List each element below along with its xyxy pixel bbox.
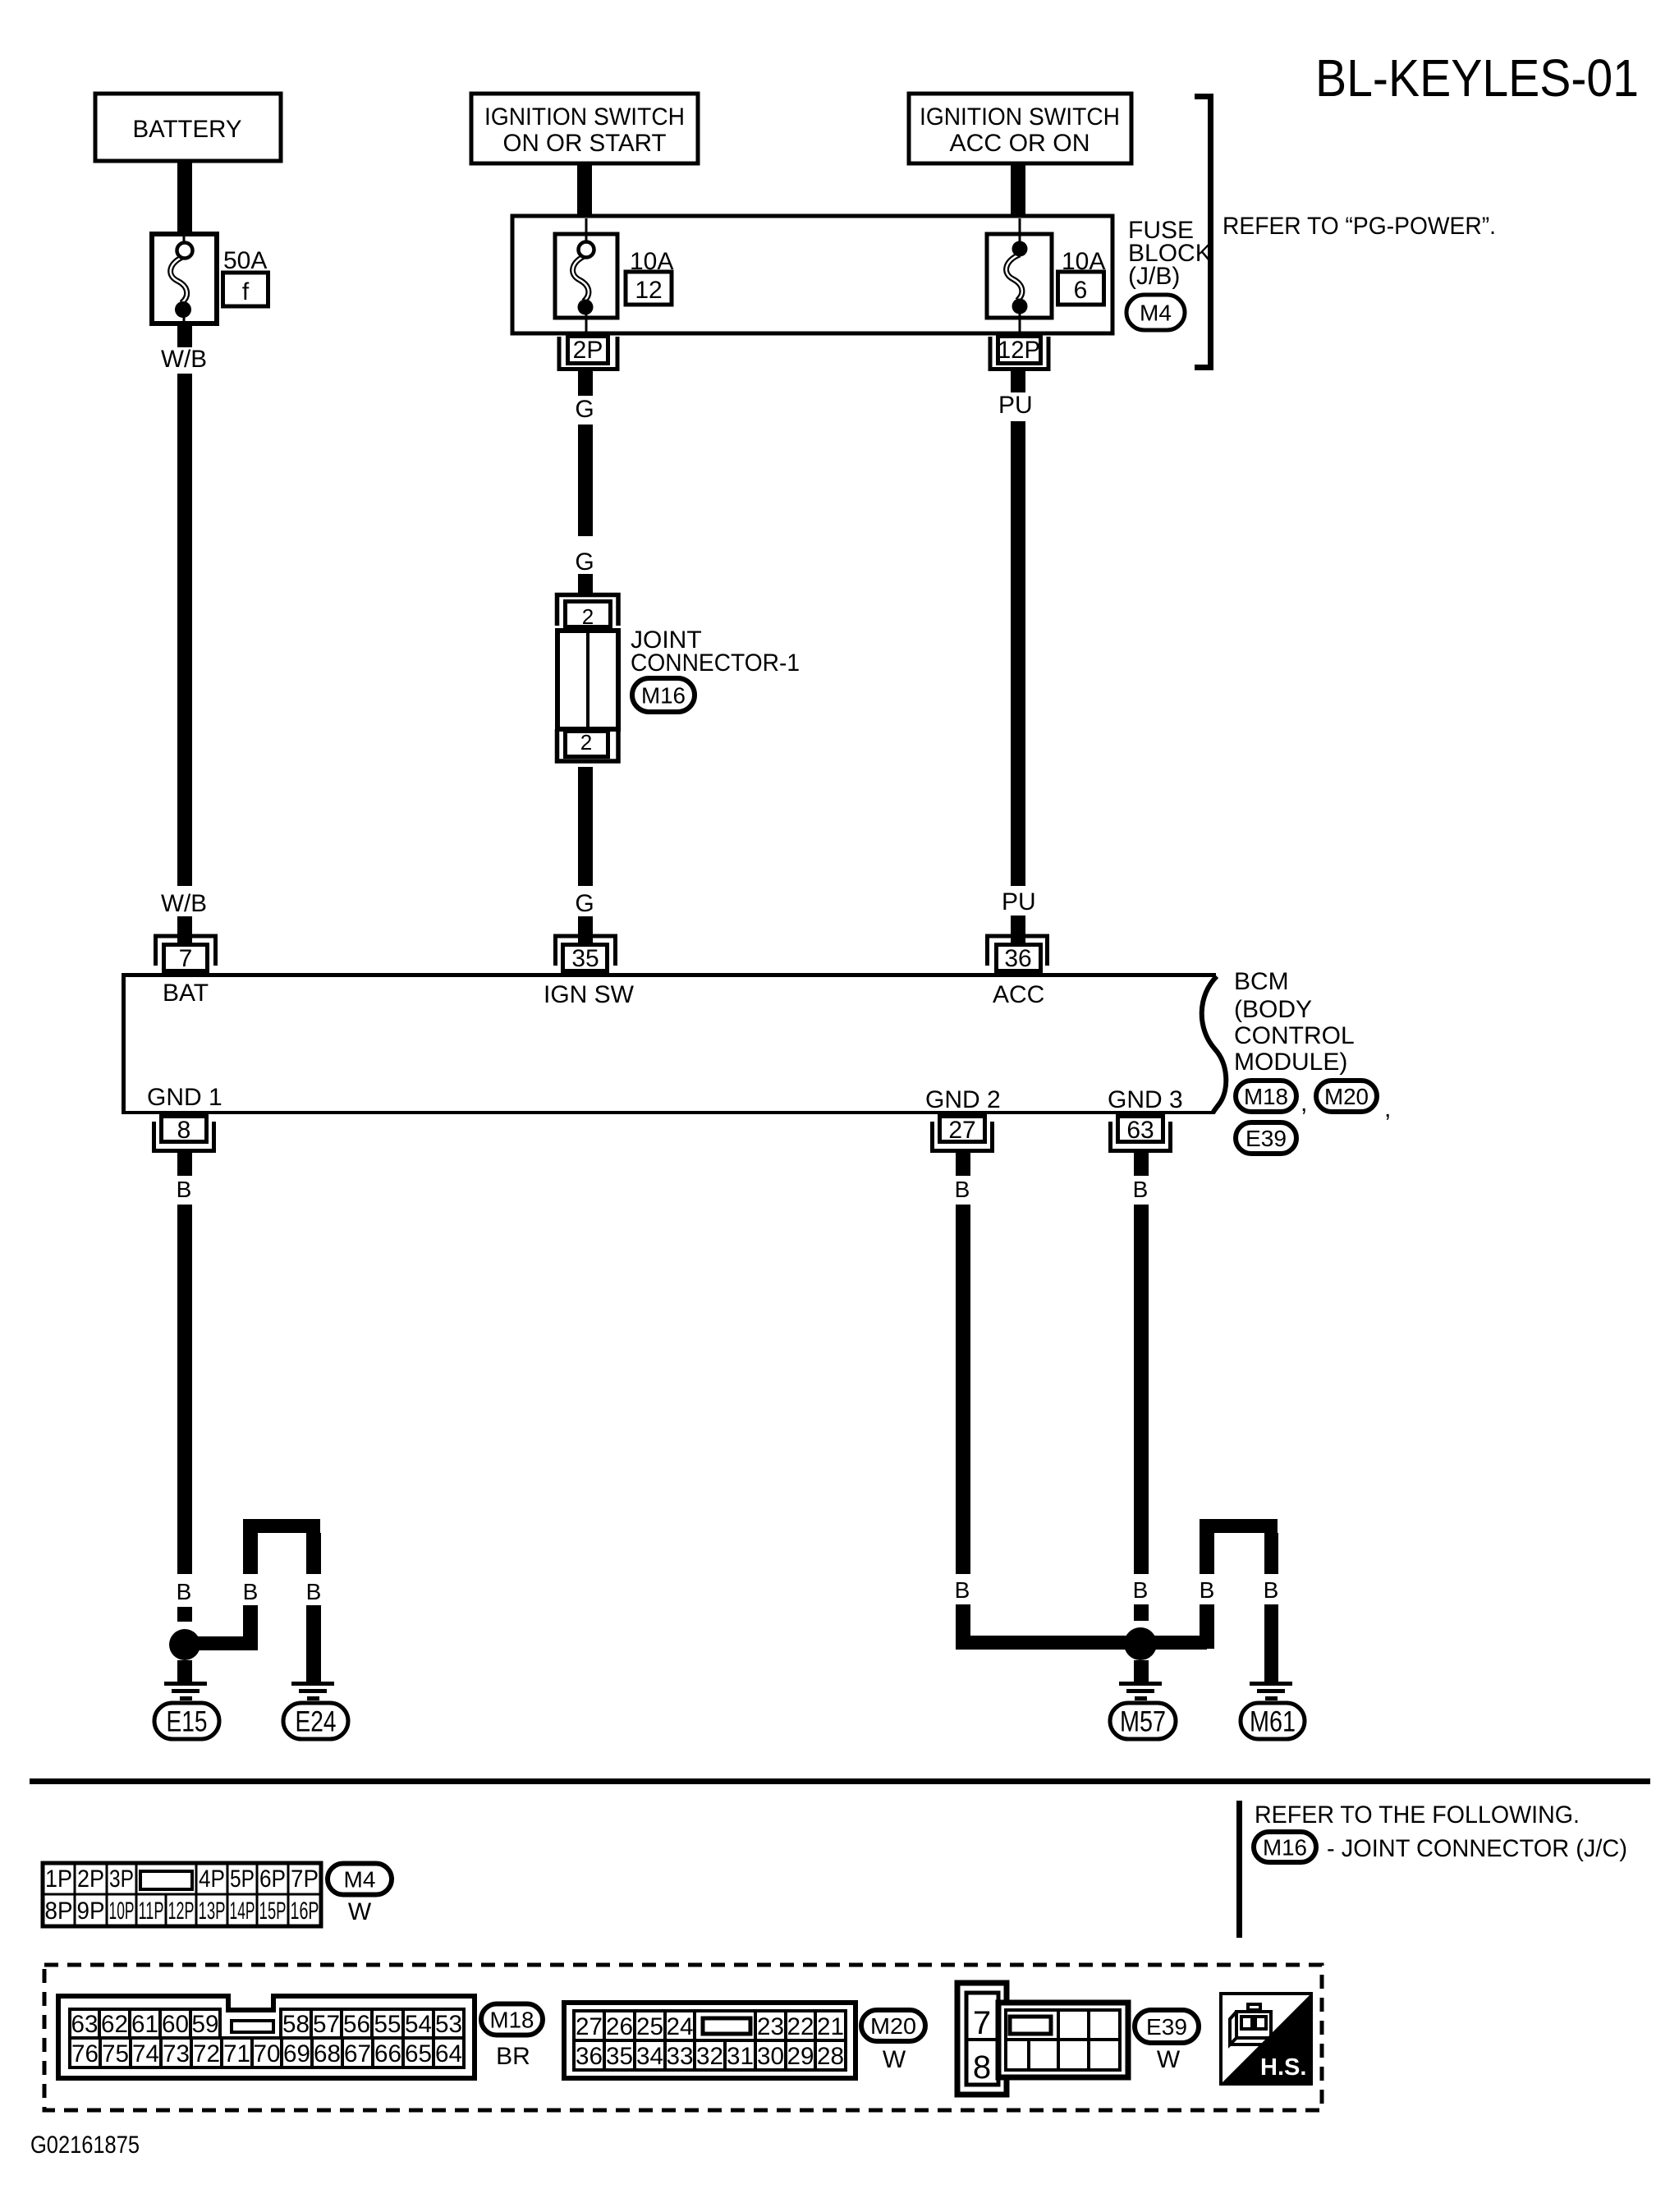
- pin 71 (M18): [222, 2038, 252, 2067]
- svg-text:63: 63: [1126, 1117, 1154, 1144]
- svg-text:58: 58: [282, 2011, 310, 2038]
- joint connector-1 bottom pin box 2: [566, 732, 608, 757]
- wire below junction dot to ground E15: [177, 1660, 192, 1682]
- svg-text:BL-KEYLES-01: BL-KEYLES-01: [1315, 48, 1639, 108]
- connector id oval M4 (table): [328, 1864, 392, 1895]
- ignition switch ACC/ON box: [909, 94, 1131, 163]
- fuse id box 12: [626, 272, 672, 305]
- svg-text:11P: 11P: [139, 1898, 164, 1925]
- svg-text:67: 67: [344, 2040, 371, 2067]
- ground id oval M61: [1241, 1703, 1305, 1739]
- wire n-left-leg lower segment: [243, 1605, 258, 1650]
- svg-text:B: B: [955, 1577, 970, 1603]
- svg-text:M4: M4: [1140, 300, 1172, 325]
- connector face M18 pin table: [58, 1996, 475, 2078]
- connector id oval E39 (BCM): [1236, 1122, 1296, 1154]
- svg-text:IGNITION SWITCH: IGNITION SWITCH: [920, 103, 1120, 131]
- svg-text:ACC OR ON: ACC OR ON: [950, 130, 1090, 157]
- H.S. hand-side badge: [1221, 1994, 1311, 2084]
- pin box 7: [164, 945, 208, 971]
- svg-text:5P: 5P: [230, 1866, 255, 1893]
- svg-text:BR: BR: [496, 2043, 530, 2070]
- svg-text:65: 65: [405, 2040, 432, 2067]
- wire right-n-left-leg lower segment: [1200, 1604, 1214, 1649]
- svg-text:E15: E15: [167, 1705, 208, 1737]
- svg-text:CONNECTOR-1: CONNECTOR-1: [631, 649, 800, 677]
- svg-text:G: G: [575, 890, 594, 917]
- svg-text:3P: 3P: [109, 1866, 134, 1893]
- pin 23 (M20): [755, 2011, 786, 2040]
- svg-text:10P: 10P: [109, 1898, 135, 1925]
- connector id oval M20 (table): [861, 2010, 925, 2041]
- pin 53 (M18): [434, 2009, 464, 2038]
- svg-text:53: 53: [435, 2011, 462, 2038]
- pin 60 (M18): [160, 2009, 190, 2038]
- wire horizontal junction to n-shape: [1140, 1636, 1207, 1650]
- svg-text:G: G: [575, 396, 594, 423]
- n-shaped jumper wire (M61 branch): [1200, 1519, 1278, 1533]
- wire horizontal junction to E24 branch: [185, 1636, 258, 1650]
- svg-text:8P: 8P: [45, 1898, 73, 1925]
- wire W/B stub to pin 7: [177, 916, 192, 944]
- battery box: [95, 94, 281, 161]
- joint connector-1 bottom bracket: [557, 729, 619, 761]
- svg-text:62: 62: [101, 2011, 128, 2038]
- pin 26 (M20): [604, 2011, 635, 2040]
- svg-text:PU: PU: [1002, 888, 1036, 916]
- wire G stub above joint connector: [578, 574, 593, 593]
- n-shaped jumper wire (E24 branch): [243, 1519, 320, 1533]
- wire B long segment from pin 27: [956, 1205, 970, 1574]
- svg-text:68: 68: [314, 2040, 341, 2067]
- svg-text:B: B: [1200, 1577, 1215, 1603]
- svg-text:B: B: [1264, 1577, 1279, 1603]
- svg-text:GND 2: GND 2: [925, 1086, 1001, 1113]
- pin box 35: [563, 945, 608, 971]
- pin 62 (M18): [99, 2009, 130, 2038]
- pin 58 (M18): [281, 2009, 311, 2038]
- svg-text:35: 35: [606, 2043, 633, 2070]
- svg-text:61: 61: [131, 2011, 158, 2038]
- keyway cell and slot (M20): [695, 2011, 755, 2040]
- pin 59 (M18): [190, 2009, 220, 2038]
- pin 63 (M18): [70, 2009, 99, 2038]
- svg-text:M57: M57: [1120, 1705, 1166, 1737]
- pin 29 (M20): [786, 2040, 815, 2070]
- joint connector-1 top bracket: [557, 595, 619, 626]
- wire B stub above junction M57: [1134, 1604, 1149, 1621]
- pin box 8: [162, 1117, 207, 1142]
- ground symbol M61: [1250, 1682, 1292, 1686]
- svg-text:70: 70: [254, 2040, 281, 2067]
- svg-text:27: 27: [948, 1117, 975, 1144]
- svg-text:E39: E39: [1245, 1126, 1287, 1151]
- svg-text:B: B: [306, 1579, 322, 1604]
- svg-text:12P: 12P: [168, 1898, 195, 1925]
- wire B long segment from pin 63: [1134, 1205, 1149, 1574]
- pin 70 (M18): [252, 2038, 282, 2067]
- keyway slot (E39): [1010, 2017, 1051, 2034]
- connector face E39: [957, 1983, 1007, 2095]
- junction dot (E15 branch): [169, 1629, 200, 1660]
- connector face M20 pin table: [564, 2003, 856, 2078]
- svg-text:29: 29: [787, 2043, 814, 2070]
- wire W/B long segment: [177, 374, 192, 886]
- svg-text:15P: 15P: [259, 1898, 287, 1925]
- svg-text:IGN SW: IGN SW: [544, 981, 635, 1008]
- ground id oval E15: [154, 1703, 219, 1739]
- ignition switch ON/START box: [471, 94, 698, 163]
- fuse 6 10A: [987, 234, 1052, 318]
- svg-text:23: 23: [757, 2013, 784, 2040]
- pin 67 (M18): [342, 2038, 373, 2067]
- svg-text:W/B: W/B: [161, 890, 207, 917]
- wire G below 2P: [578, 371, 593, 396]
- fuse id box f: [223, 273, 268, 306]
- ground id oval M57: [1110, 1703, 1176, 1739]
- svg-text:12P: 12P: [998, 337, 1040, 364]
- pin 31 (M20): [725, 2040, 755, 2070]
- svg-text:W: W: [348, 1898, 372, 1925]
- wire horizontal GND2 to junction: [956, 1636, 1141, 1650]
- svg-text:59: 59: [192, 2011, 219, 2038]
- pin 21 (M20): [815, 2011, 846, 2040]
- connector 12P below fuse block: [990, 337, 1048, 369]
- svg-text:32: 32: [696, 2043, 723, 2070]
- fuse 12 10A: [555, 234, 617, 318]
- svg-text:6: 6: [1074, 277, 1088, 304]
- pin connector 7 bracket: [156, 936, 216, 966]
- svg-text:2P: 2P: [77, 1866, 104, 1893]
- connector id oval M4 (fuse block): [1126, 295, 1185, 330]
- svg-text:35: 35: [571, 945, 599, 972]
- svg-text:14P: 14P: [230, 1898, 255, 1925]
- pin connector 8 bracket: [154, 1122, 214, 1151]
- svg-text:M18: M18: [490, 2007, 534, 2032]
- wire ignition ON/START to fuse block: [577, 162, 592, 219]
- svg-text:M20: M20: [1324, 1084, 1369, 1109]
- pin 34 (M20): [635, 2040, 665, 2070]
- svg-text:7: 7: [973, 2005, 991, 2041]
- fuse id box 6: [1058, 272, 1104, 305]
- svg-text:2: 2: [582, 604, 594, 629]
- wire right-n-right-leg to ground M61: [1264, 1604, 1278, 1682]
- wire ignition ACC/ON to fuse block: [1011, 162, 1025, 219]
- pin 22 (M20): [786, 2011, 815, 2040]
- svg-text:G02161875: G02161875: [30, 2132, 140, 2159]
- svg-text:36: 36: [576, 2043, 603, 2070]
- connector id oval M16: [632, 678, 695, 712]
- svg-text:M16: M16: [641, 682, 686, 708]
- pin 72 (M18): [191, 2038, 222, 2067]
- connector id oval M16 (note): [1254, 1832, 1316, 1862]
- pin 55 (M18): [372, 2009, 403, 2038]
- svg-text:B: B: [177, 1177, 192, 1202]
- svg-text:MODULE): MODULE): [1234, 1049, 1347, 1076]
- svg-text:69: 69: [283, 2040, 310, 2067]
- svg-text:BCM: BCM: [1234, 968, 1289, 995]
- svg-text:27: 27: [576, 2013, 603, 2040]
- svg-text:73: 73: [163, 2040, 190, 2067]
- pin 54 (M18): [403, 2009, 434, 2038]
- pin 76 (M18): [70, 2038, 100, 2067]
- svg-text:50A: 50A: [223, 247, 267, 274]
- wire B stub below pin 27: [956, 1153, 970, 1176]
- wire below junction dot to ground M57: [1134, 1660, 1149, 1682]
- wire G stub to pin 35: [578, 916, 593, 944]
- svg-text:75: 75: [102, 2040, 129, 2067]
- svg-text:B: B: [177, 1579, 192, 1604]
- wire W/B below fuse: [177, 324, 192, 347]
- svg-text:72: 72: [193, 2040, 220, 2067]
- pin 32 (M20): [695, 2040, 725, 2070]
- pin 69 (M18): [282, 2038, 312, 2067]
- svg-text:ACC: ACC: [993, 981, 1044, 1008]
- svg-text:PU: PU: [998, 392, 1033, 419]
- ground id oval E24: [283, 1703, 348, 1739]
- connector face M4 pin table: [43, 1863, 321, 1926]
- svg-text:76: 76: [71, 2040, 99, 2067]
- svg-text:M18: M18: [1244, 1084, 1288, 1109]
- pin box 27: [940, 1117, 985, 1142]
- svg-text:CONTROL: CONTROL: [1234, 1022, 1355, 1049]
- svg-text:31: 31: [727, 2043, 754, 2070]
- svg-text:2P: 2P: [573, 337, 603, 364]
- svg-text:9P: 9P: [77, 1898, 105, 1925]
- svg-text:,: ,: [1384, 1095, 1391, 1122]
- pin 66 (M18): [373, 2038, 403, 2067]
- pin 33 (M20): [665, 2040, 695, 2070]
- svg-text:W: W: [883, 2046, 906, 2073]
- pin connector 27 bracket: [933, 1122, 993, 1151]
- svg-text:B: B: [1133, 1177, 1149, 1202]
- svg-text:REFER TO “PG-POWER”.: REFER TO “PG-POWER”.: [1223, 213, 1496, 240]
- pin 68 (M18): [312, 2038, 342, 2067]
- pin 27 (M20): [574, 2011, 604, 2040]
- svg-text:M4: M4: [344, 1866, 376, 1892]
- svg-text:7P: 7P: [291, 1866, 319, 1893]
- pin 36 (M20): [574, 2040, 604, 2070]
- pin connector 63 bracket: [1111, 1122, 1171, 1151]
- pin 74 (M18): [131, 2038, 161, 2067]
- wire B stub below pin 8: [177, 1153, 192, 1176]
- svg-text:55: 55: [374, 2011, 401, 2038]
- ground symbol E24: [291, 1682, 334, 1686]
- svg-text:8: 8: [177, 1117, 191, 1144]
- pin 57 (M18): [311, 2009, 342, 2038]
- svg-text:56: 56: [343, 2011, 370, 2038]
- wire battery to fuse 50A: [177, 159, 192, 236]
- vertical divider line (note): [1236, 1801, 1242, 1938]
- pin connector 35 bracket: [556, 936, 616, 966]
- pin box 36: [997, 945, 1041, 971]
- svg-text:B: B: [955, 1177, 970, 1202]
- keyway slot (M4): [140, 1871, 192, 1889]
- ground symbol E15: [164, 1682, 207, 1686]
- svg-text:64: 64: [435, 2040, 462, 2067]
- pin 61 (M18): [130, 2009, 160, 2038]
- svg-text:57: 57: [313, 2011, 340, 2038]
- svg-text:63: 63: [71, 2011, 99, 2038]
- svg-text:8: 8: [973, 2049, 991, 2086]
- svg-text:54: 54: [405, 2011, 432, 2038]
- svg-text:4P: 4P: [199, 1866, 225, 1893]
- svg-text:60: 60: [162, 2011, 189, 2038]
- connector 2P: [559, 337, 617, 369]
- svg-text:6P: 6P: [259, 1866, 286, 1893]
- svg-text:GND 1: GND 1: [147, 1084, 222, 1111]
- fuse block (J/B) box: [512, 216, 1112, 333]
- connector id oval E39 (table): [1135, 2010, 1199, 2043]
- pin 73 (M18): [161, 2038, 191, 2067]
- svg-text:G: G: [575, 548, 594, 576]
- pin 75 (M18): [100, 2038, 131, 2067]
- svg-text:B: B: [243, 1579, 259, 1604]
- pin connector 36 bracket: [988, 936, 1048, 966]
- connector id oval M18 (BCM): [1236, 1081, 1296, 1112]
- joint connector-1 top pin box 2: [566, 602, 611, 627]
- svg-text:21: 21: [817, 2013, 844, 2040]
- svg-text:BATTERY: BATTERY: [133, 116, 242, 143]
- wire GND2 corner segment: [956, 1604, 970, 1649]
- svg-text:ON OR START: ON OR START: [503, 130, 667, 157]
- svg-text:12: 12: [635, 277, 662, 304]
- svg-text:W/B: W/B: [161, 346, 207, 373]
- svg-text:24: 24: [667, 2013, 694, 2040]
- wire PU long segment: [1011, 421, 1025, 886]
- E39 right grid: [998, 2003, 1128, 2077]
- svg-text:E24: E24: [296, 1705, 337, 1737]
- pin 28 (M20): [815, 2040, 846, 2070]
- connector sketch icon (H.S. badge): [1230, 2004, 1271, 2044]
- svg-text:(J/B): (J/B): [1128, 263, 1180, 290]
- wire PU below 12P: [1011, 371, 1025, 392]
- svg-text:66: 66: [374, 2040, 401, 2067]
- pin 56 (M18): [342, 2009, 372, 2038]
- wire PU stub to pin 36: [1011, 916, 1025, 944]
- svg-text:2: 2: [580, 730, 592, 755]
- ground symbol M57: [1119, 1682, 1162, 1686]
- pin 35 (M20): [604, 2040, 635, 2070]
- pin box 63: [1118, 1117, 1163, 1142]
- svg-text:,: ,: [1301, 1090, 1307, 1117]
- svg-text:34: 34: [636, 2043, 663, 2070]
- wire G segment: [578, 425, 593, 536]
- svg-text:36: 36: [1004, 945, 1031, 972]
- svg-text:33: 33: [667, 2043, 694, 2070]
- wire G below joint connector: [578, 767, 593, 886]
- pin 24 (M20): [665, 2011, 695, 2040]
- svg-text:REFER TO THE FOLLOWING.: REFER TO THE FOLLOWING.: [1255, 1801, 1580, 1829]
- svg-text:H.S.: H.S.: [1260, 2054, 1306, 2081]
- svg-text:16P: 16P: [291, 1898, 319, 1925]
- horizontal separator line: [30, 1778, 1650, 1784]
- svg-text:B: B: [1133, 1577, 1149, 1603]
- svg-text:M61: M61: [1250, 1705, 1296, 1737]
- pin 25 (M20): [635, 2011, 665, 2040]
- svg-text:1P: 1P: [45, 1866, 72, 1893]
- svg-text:- JOINT CONNECTOR (J/C): - JOINT CONNECTOR (J/C): [1327, 1835, 1627, 1862]
- svg-text:22: 22: [787, 2013, 814, 2040]
- pin 64 (M18): [434, 2038, 464, 2067]
- svg-text:M16: M16: [1263, 1834, 1307, 1860]
- svg-text:74: 74: [132, 2040, 159, 2067]
- junction dot (M57 branch): [1124, 1627, 1157, 1660]
- svg-text:E39: E39: [1146, 2014, 1187, 2040]
- dashed group box (BCM connectors): [44, 1965, 1322, 2110]
- svg-text:f: f: [242, 278, 250, 305]
- svg-text:W: W: [1157, 2046, 1181, 2073]
- svg-text:GND 3: GND 3: [1108, 1086, 1183, 1113]
- svg-text:26: 26: [606, 2013, 633, 2040]
- wire B long segment from pin 8: [177, 1205, 192, 1574]
- svg-text:28: 28: [817, 2043, 844, 2070]
- bracket refer to PG-POWER: [1195, 97, 1211, 368]
- pin 30 (M20): [755, 2040, 786, 2070]
- BCM body control module box: [122, 973, 1216, 977]
- svg-text:7: 7: [179, 945, 193, 972]
- wire B stub above junction E15: [177, 1607, 192, 1622]
- wire n-right-leg to ground E24: [306, 1605, 321, 1682]
- svg-text:30: 30: [757, 2043, 784, 2070]
- svg-text:M20: M20: [870, 2013, 916, 2039]
- svg-text:25: 25: [636, 2013, 663, 2040]
- svg-text:IGNITION SWITCH: IGNITION SWITCH: [484, 103, 685, 131]
- svg-text:(BODY: (BODY: [1234, 996, 1312, 1023]
- svg-text:13P: 13P: [199, 1898, 226, 1925]
- joint connector-1 body M16: [557, 631, 618, 729]
- svg-text:BAT: BAT: [163, 980, 209, 1007]
- wire B stub below pin 63: [1134, 1153, 1149, 1176]
- svg-text:71: 71: [223, 2040, 250, 2067]
- keyway slot (M18): [232, 2021, 273, 2032]
- connector id oval M18 (table): [481, 2004, 543, 2035]
- pin 65 (M18): [403, 2038, 434, 2067]
- connector id oval M20 (BCM): [1316, 1081, 1377, 1112]
- fuse f 50A (battery): [152, 234, 217, 324]
